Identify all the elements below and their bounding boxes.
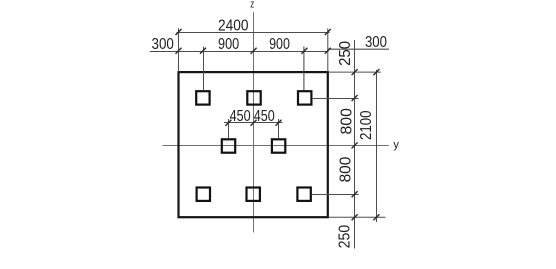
svg-text:900: 900 — [218, 36, 239, 53]
svg-text:2400: 2400 — [218, 18, 249, 35]
plate outline — [179, 72, 328, 217]
svg-text:2100: 2100 — [358, 110, 375, 140]
extension line col1 top — [203, 47, 205, 91]
tick chain1 y72 — [352, 69, 358, 75]
hole A1 top-left — [196, 91, 209, 104]
tick row2 x178 — [176, 48, 182, 54]
tick 450 right — [276, 120, 282, 126]
extension line hole row3 right — [312, 194, 359, 196]
y axis line — [163, 145, 389, 147]
tick chain2 y72 — [373, 69, 379, 75]
svg-text:300: 300 — [365, 34, 387, 51]
dim text 800 lower — [338, 157, 355, 183]
dim text 900 first — [218, 36, 239, 53]
extension line mid-right 450 — [278, 119, 280, 138]
hole A3 top-right — [298, 91, 311, 104]
dim text 450 left — [230, 108, 251, 125]
tick chain1 y98 — [352, 95, 358, 101]
tick chain1 y217 — [352, 214, 358, 220]
tick chain1 y145 — [352, 142, 358, 148]
tick 450 center — [251, 120, 257, 126]
extension line hole row1 right — [312, 98, 359, 100]
dimension line 450/450 — [224, 122, 283, 124]
tick chain1 y194 — [352, 191, 358, 197]
tick chain2 y217 — [373, 214, 379, 220]
tick 450 left — [225, 120, 231, 126]
hole C1 bottom-left — [197, 188, 210, 201]
svg-text:450: 450 — [230, 108, 251, 125]
z axis line — [253, 12, 255, 232]
extension line plate top right — [329, 71, 381, 73]
hole B2 middle-right — [272, 139, 285, 152]
extension line col3 top — [303, 47, 305, 91]
extension line mid-left 450 — [228, 119, 230, 138]
tick row2 x304 — [301, 48, 307, 54]
hole A2 top-middle — [247, 91, 260, 104]
hole C3 bottom-right — [297, 188, 310, 201]
svg-text:250: 250 — [337, 41, 354, 66]
dim text 900 second — [269, 36, 290, 53]
dim text 250 bottom — [336, 225, 353, 249]
extension line plate bottom right — [329, 216, 386, 218]
z axis label — [250, 0, 254, 10]
dim text 250 top — [337, 41, 354, 66]
dim text 300 right — [365, 34, 387, 51]
svg-text:800: 800 — [338, 157, 355, 183]
dimension chain1 vertical 250/800/800/250 — [354, 40, 356, 249]
hole B1 middle-left — [222, 139, 235, 152]
tick row2 center — [251, 48, 257, 54]
svg-text:800: 800 — [338, 108, 355, 134]
dimension line row2 300/900/900/300 — [150, 49, 389, 51]
dim text 300 left — [152, 36, 174, 53]
svg-text:450: 450 — [254, 108, 275, 125]
dim text 2400 — [218, 18, 249, 35]
dimension chain2 vertical 2100 — [376, 70, 378, 222]
svg-text:y: y — [393, 139, 399, 151]
tick row2 x203 — [200, 48, 206, 54]
dim text 450 right — [254, 108, 275, 125]
dim text 2100 — [358, 110, 375, 140]
svg-text:250: 250 — [336, 225, 353, 249]
tick row1 right — [325, 29, 331, 35]
dim text 800 upper — [338, 108, 355, 134]
svg-text:900: 900 — [269, 36, 290, 53]
dimension line row1 2400 — [177, 32, 330, 34]
svg-text:300: 300 — [152, 36, 174, 53]
tick row1 left — [176, 29, 182, 35]
y axis label — [393, 139, 399, 151]
extension line left edge top — [178, 28, 180, 72]
tick row2 x328 — [325, 48, 331, 54]
hole C2 bottom-middle — [247, 188, 260, 201]
svg-text:z: z — [250, 0, 254, 10]
extension line right edge top — [327, 28, 329, 72]
